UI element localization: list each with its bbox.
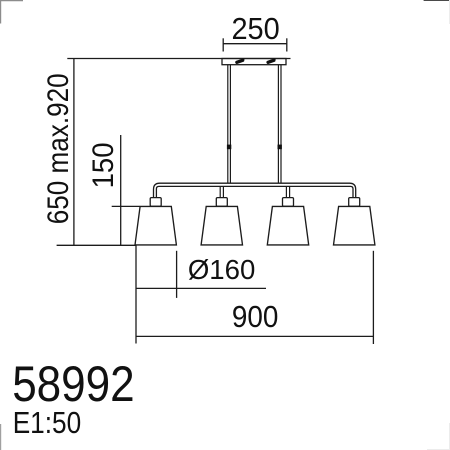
svg-text:E1:50: E1:50 — [13, 406, 82, 440]
lamp shade 1 — [135, 206, 176, 245]
corner crop mark bottom-left — [0, 424, 2, 450]
dimension line 900 — [136, 335, 373, 337]
svg-text:150: 150 — [87, 142, 120, 188]
corner crop mark bottom-right — [427, 423, 450, 450]
stub shade3 — [285, 186, 287, 197]
lamp shade 3 — [267, 206, 308, 245]
dimension line 150 vertical — [120, 135, 122, 245]
svg-text:Ø160: Ø160 — [188, 254, 256, 285]
screw right on canopy — [268, 60, 275, 63]
tick shade top for 150 — [112, 205, 140, 207]
neck shade1 — [150, 198, 161, 207]
screw left on canopy — [237, 60, 244, 63]
extension line right 900 — [372, 251, 374, 344]
neck shade2 — [216, 198, 227, 207]
wire extension line ceiling level — [67, 58, 290, 60]
neck shade4 — [349, 198, 360, 207]
extension line left for diameter and width — [135, 245, 137, 343]
extension line right diameter — [176, 251, 178, 298]
lamp shade 4 — [334, 206, 375, 245]
svg-text:58992: 58992 — [12, 355, 135, 412]
rod right — [277, 65, 279, 184]
dimension line 650 max.920 vertical — [73, 59, 75, 246]
lamp shade 2 — [201, 206, 242, 245]
arm bar outer line — [154, 183, 356, 197]
svg-text:900: 900 — [232, 299, 279, 334]
connector left rod — [227, 145, 231, 150]
corner crop mark top-right — [424, 0, 450, 24]
corner crop mark top-left — [0, 0, 23, 24]
dimension line diameter 160 — [136, 287, 266, 289]
canopy — [222, 59, 286, 65]
svg-text:250: 250 — [231, 12, 279, 46]
rod left — [227, 65, 229, 184]
stub shade2 — [219, 186, 221, 197]
baseline extension at shade bottom left — [57, 244, 136, 246]
dimension line 250 — [223, 43, 287, 45]
svg-text:650 max.920: 650 max.920 — [42, 73, 75, 224]
connector right rod — [278, 145, 282, 150]
arm bar inner line — [156, 186, 353, 197]
neck shade3 — [283, 198, 294, 207]
